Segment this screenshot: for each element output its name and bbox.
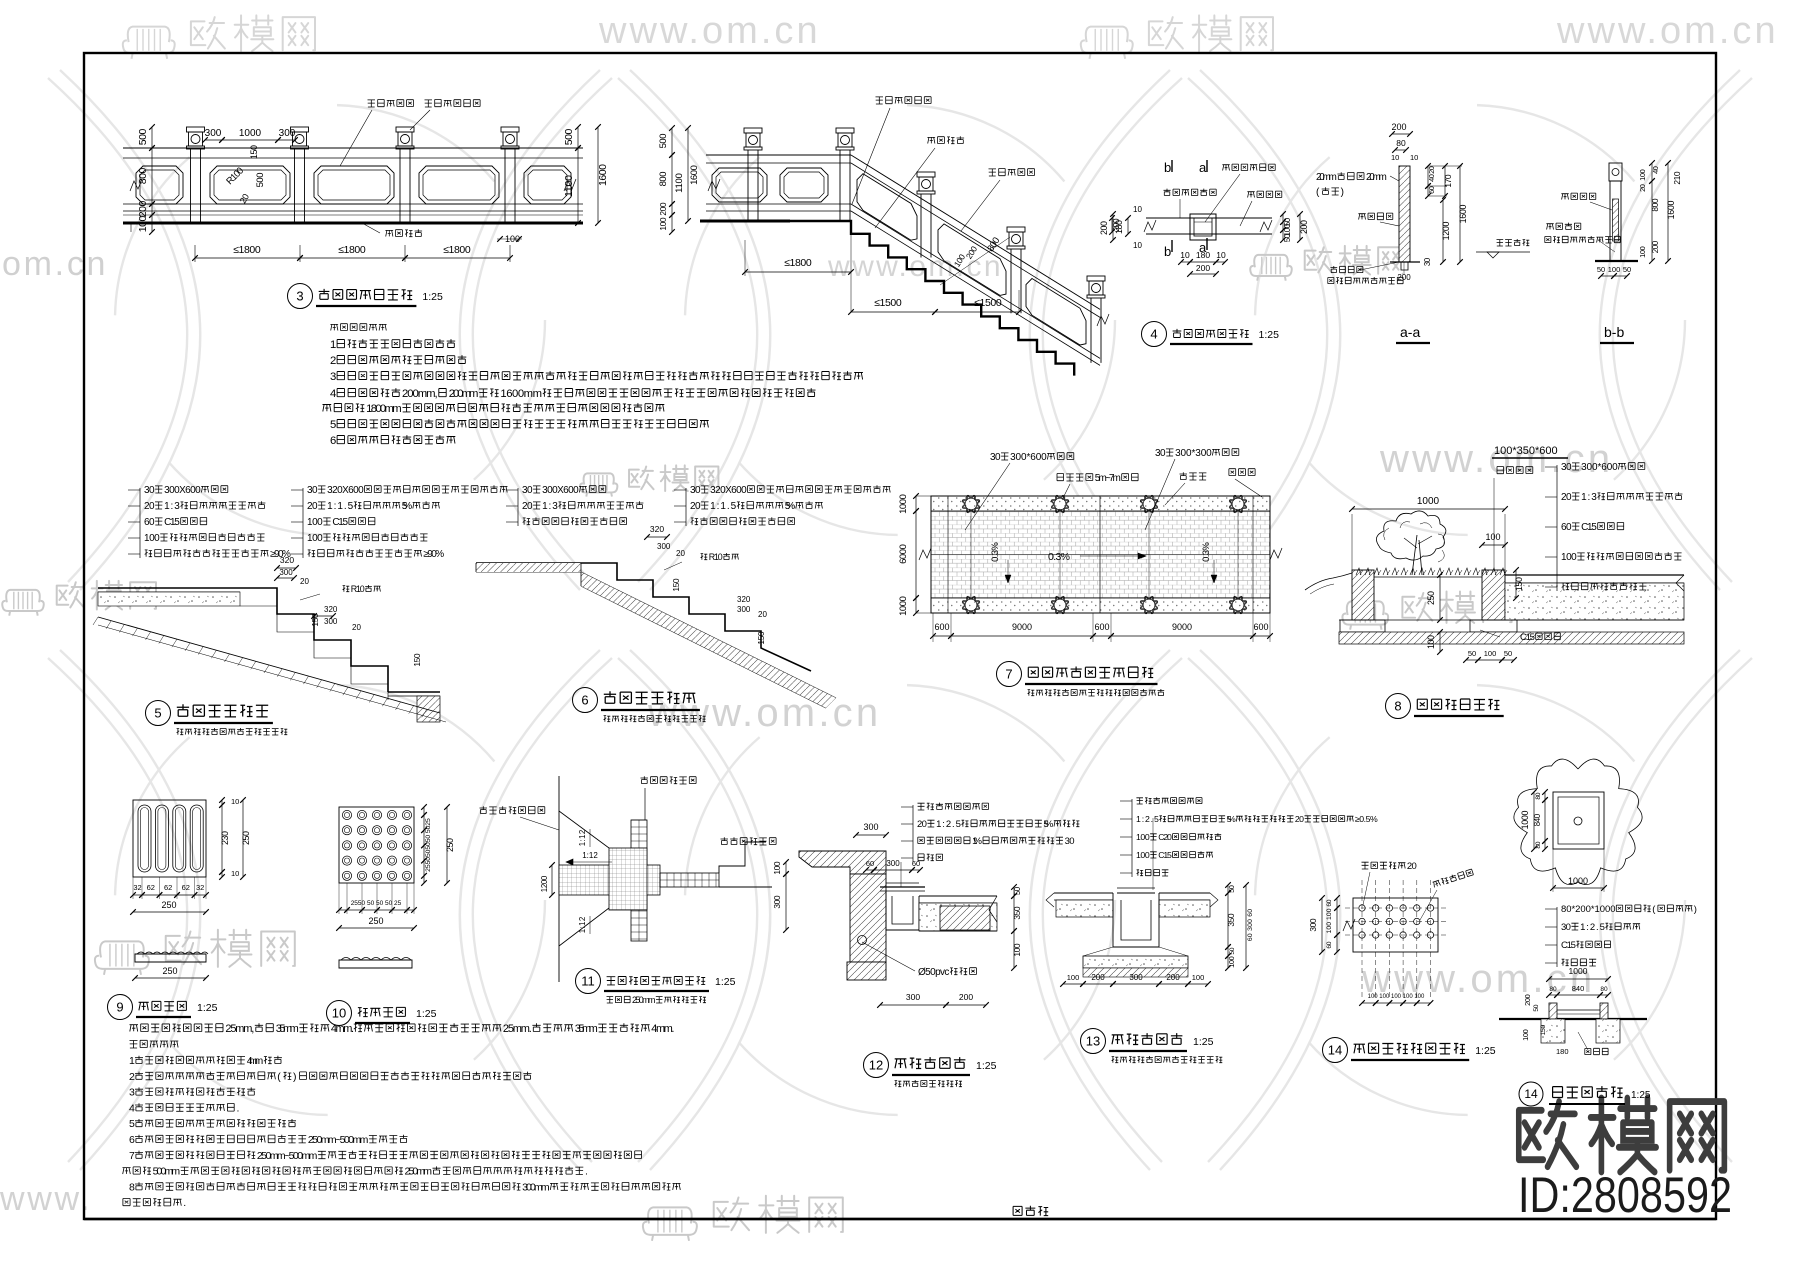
svg-text:500mm: 500mm	[153, 1166, 181, 1178]
svg-text:20: 20	[1295, 814, 1304, 824]
svg-text:100: 100	[1012, 943, 1022, 957]
svg-text:b: b	[1164, 160, 1171, 175]
svg-text:100: 100	[1067, 973, 1080, 982]
svg-text:62: 62	[147, 883, 155, 892]
svg-text:1:1.5: 1:1.5	[327, 501, 354, 512]
svg-text:1000: 1000	[239, 128, 262, 139]
svg-text:1:12: 1:12	[578, 917, 587, 934]
svg-text:100 100: 100 100	[1326, 908, 1333, 933]
svg-text:1:25: 1:25	[1475, 1045, 1496, 1057]
svg-text:100: 100	[1426, 635, 1436, 649]
svg-text:300: 300	[324, 617, 338, 626]
svg-text:10: 10	[1410, 153, 1418, 162]
svg-text:32: 32	[196, 883, 204, 892]
svg-text:320: 320	[737, 595, 751, 604]
svg-text:a-a: a-a	[1400, 324, 1420, 340]
svg-text:60: 60	[866, 859, 874, 868]
svg-text:300mm: 300mm	[522, 1181, 550, 1193]
svg-text:100: 100	[1608, 265, 1621, 274]
svg-text:14: 14	[1328, 1043, 1342, 1058]
svg-text:R10: R10	[351, 584, 365, 594]
svg-text:200: 200	[959, 992, 973, 1002]
svg-text:6: 6	[581, 693, 588, 708]
svg-text:60: 60	[144, 517, 155, 528]
svg-text:10: 10	[332, 1006, 346, 1021]
svg-text:1600: 1600	[1666, 201, 1676, 220]
svg-text:1:25: 1:25	[416, 1008, 437, 1020]
svg-text:200: 200	[1196, 263, 1210, 273]
svg-text:1: 1	[129, 1055, 135, 1067]
svg-text:170: 170	[1443, 174, 1453, 188]
svg-text:C15: C15	[1158, 850, 1172, 860]
svg-text:www.om.cn: www.om.cn	[827, 250, 1003, 283]
svg-text:250mm: 250mm	[632, 995, 655, 1005]
svg-text:100: 100	[1561, 552, 1577, 563]
svg-text:230: 230	[220, 831, 230, 845]
svg-text:100: 100	[1484, 649, 1497, 658]
svg-text:320: 320	[280, 555, 294, 565]
svg-text:5%: 5%	[402, 501, 413, 512]
svg-text:7: 7	[129, 1150, 135, 1162]
svg-text:100: 100	[307, 517, 323, 528]
svg-text:R10: R10	[709, 552, 723, 562]
svg-text:300: 300	[657, 542, 671, 551]
svg-text:150: 150	[249, 145, 259, 159]
svg-text:1:25: 1:25	[422, 291, 443, 303]
svg-text:300: 300	[886, 859, 900, 868]
svg-text:14: 14	[1524, 1087, 1538, 1101]
svg-text:1000: 1000	[1568, 876, 1588, 886]
svg-text:2: 2	[129, 1071, 135, 1083]
svg-text:32: 32	[133, 883, 141, 892]
svg-text:1:12: 1:12	[582, 851, 598, 860]
svg-text:≥90%: ≥90%	[423, 549, 444, 560]
svg-text:62: 62	[164, 883, 172, 892]
svg-text:1:25: 1:25	[976, 1060, 997, 1072]
svg-text:100: 100	[1638, 246, 1647, 258]
svg-text:500: 500	[255, 173, 266, 188]
svg-text:150: 150	[756, 631, 766, 645]
svg-text:60: 60	[1561, 522, 1572, 533]
svg-text:12: 12	[869, 1058, 883, 1073]
svg-text:35mm: 35mm	[575, 1023, 598, 1035]
svg-text:4mm: 4mm	[247, 1055, 264, 1067]
svg-text:500: 500	[137, 129, 149, 146]
svg-text:20: 20	[1561, 492, 1572, 503]
svg-text:100: 100	[1521, 1029, 1530, 1041]
svg-text:320X600: 320X600	[327, 485, 364, 496]
svg-text:50: 50	[1623, 265, 1631, 274]
svg-text:www.: www.	[0, 1180, 92, 1218]
svg-text:6: 6	[129, 1134, 135, 1146]
svg-text:10: 10	[1216, 250, 1226, 260]
svg-text:4mm.: 4mm.	[651, 1023, 674, 1035]
svg-text:b: b	[1164, 244, 1171, 259]
svg-text:20: 20	[307, 501, 318, 512]
svg-text:30: 30	[522, 485, 533, 496]
svg-text:150: 150	[1540, 1024, 1547, 1035]
svg-text:50: 50	[1283, 233, 1292, 242]
svg-text:1200: 1200	[1441, 222, 1451, 241]
svg-text:800: 800	[658, 172, 669, 187]
svg-text:100: 100	[1136, 850, 1150, 860]
svg-text:100: 100	[1485, 532, 1500, 542]
svg-text:35mm: 35mm	[276, 1023, 299, 1035]
svg-text:1:2.5: 1:2.5	[936, 819, 961, 830]
svg-text:800: 800	[137, 168, 149, 185]
svg-text:200: 200	[1391, 122, 1406, 132]
svg-text:6: 6	[330, 435, 336, 447]
svg-text:300: 300	[1129, 973, 1143, 982]
svg-text:300: 300	[737, 605, 751, 614]
svg-text:320: 320	[324, 605, 338, 614]
svg-text:20: 20	[690, 501, 701, 512]
svg-text:4: 4	[129, 1102, 135, 1114]
svg-text:5m~7m: 5m~7m	[1095, 473, 1121, 484]
svg-text:100: 100	[1227, 956, 1236, 968]
svg-text:≤1800: ≤1800	[233, 244, 261, 256]
svg-text:1:25: 1:25	[1193, 1036, 1214, 1048]
svg-text:www.om.cn: www.om.cn	[1556, 10, 1779, 52]
svg-text:1000: 1000	[898, 494, 909, 514]
svg-text:13: 13	[1086, 1034, 1100, 1049]
svg-text:≥0.5%: ≥0.5%	[1355, 814, 1378, 824]
svg-text:800: 800	[1650, 198, 1660, 212]
svg-text:30: 30	[1561, 922, 1571, 933]
svg-text:210: 210	[1672, 171, 1682, 185]
svg-text:4mm.: 4mm.	[331, 1023, 354, 1035]
svg-text:1:2.5: 1:2.5	[1580, 922, 1605, 933]
svg-text:25mm.: 25mm.	[503, 1023, 532, 1035]
svg-text:250: 250	[161, 900, 176, 910]
svg-text:180: 180	[1114, 220, 1124, 234]
svg-text:20: 20	[1407, 861, 1417, 872]
svg-text:60 300 60: 60 300 60	[1247, 909, 1254, 941]
svg-text:1:3: 1:3	[1581, 492, 1597, 503]
svg-text:≤1500: ≤1500	[974, 297, 1002, 309]
svg-text:50: 50	[1468, 649, 1476, 658]
svg-text:www.om.cn: www.om.cn	[598, 10, 821, 52]
svg-text:80: 80	[1535, 841, 1542, 848]
svg-text:200mm: 200mm	[449, 388, 479, 400]
svg-text:≤1500: ≤1500	[874, 297, 902, 309]
svg-text:62: 62	[182, 883, 190, 892]
svg-text:200: 200	[1166, 973, 1180, 982]
svg-text:250mm: 250mm	[405, 1166, 433, 1178]
svg-text:5: 5	[330, 419, 336, 431]
svg-text:ID:2808592: ID:2808592	[1518, 1167, 1732, 1223]
svg-text:1:12: 1:12	[578, 830, 587, 847]
svg-text:20: 20	[352, 623, 361, 632]
svg-text:4: 4	[330, 388, 336, 400]
svg-text:100: 100	[772, 861, 782, 875]
svg-text:1800mm: 1800mm	[366, 403, 402, 415]
svg-text:840: 840	[1533, 813, 1542, 826]
svg-text:50: 50	[1504, 649, 1512, 658]
svg-text:500: 500	[563, 129, 575, 146]
svg-text:1000: 1000	[1417, 496, 1440, 507]
svg-text:180: 180	[1556, 1047, 1569, 1056]
svg-text:10: 10	[231, 797, 239, 806]
svg-text:5: 5	[154, 706, 161, 721]
svg-text:1600: 1600	[597, 164, 609, 186]
svg-text:9000: 9000	[1012, 622, 1032, 632]
svg-text:3: 3	[296, 289, 303, 304]
svg-text:www.om.cn: www.om.cn	[1379, 437, 1613, 481]
svg-text:4: 4	[1150, 327, 1157, 342]
svg-text:≤1800: ≤1800	[784, 257, 812, 269]
svg-text:10: 10	[1391, 153, 1399, 162]
svg-text:C15: C15	[332, 517, 348, 528]
svg-text:20: 20	[1638, 184, 1647, 192]
svg-text:20: 20	[758, 610, 767, 619]
svg-text:1:2.5: 1:2.5	[1136, 814, 1159, 824]
svg-text:300*600: 300*600	[1010, 452, 1047, 463]
svg-text:1100: 1100	[563, 175, 575, 197]
svg-text:5%: 5%	[1043, 819, 1053, 830]
svg-text:0.3%: 0.3%	[1048, 551, 1070, 563]
svg-text:3: 3	[330, 371, 336, 383]
svg-text:.: .	[237, 1102, 240, 1114]
svg-text:1:25: 1:25	[715, 976, 736, 988]
svg-text:200: 200	[1651, 240, 1660, 253]
svg-text:30: 30	[144, 485, 155, 496]
svg-text:1:3: 1:3	[542, 501, 558, 512]
svg-text:100: 100	[658, 217, 668, 231]
svg-text:1000: 1000	[898, 596, 909, 616]
svg-text:b-b: b-b	[1604, 324, 1624, 340]
svg-text:6000: 6000	[898, 544, 909, 564]
svg-text:300: 300	[906, 992, 920, 1002]
svg-text:50: 50	[1229, 947, 1236, 954]
svg-text:350: 350	[1012, 906, 1022, 920]
svg-text:11: 11	[581, 974, 595, 989]
svg-text:600: 600	[1094, 622, 1109, 632]
svg-text:www.om.cn: www.om.cn	[647, 691, 881, 735]
svg-text:100 100 100 100 100: 100 100 100 100 100	[1368, 994, 1425, 1000]
svg-text:600: 600	[1253, 622, 1268, 632]
svg-text:20: 20	[144, 501, 155, 512]
svg-text:1%: 1%	[972, 836, 982, 847]
svg-text:3: 3	[129, 1087, 135, 1099]
svg-text:300: 300	[279, 568, 293, 577]
svg-text:60: 60	[912, 859, 920, 868]
svg-text:7: 7	[1005, 667, 1012, 682]
svg-text:0.3%: 0.3%	[990, 542, 1001, 562]
svg-text:250: 250	[162, 966, 177, 976]
svg-text:100: 100	[144, 533, 160, 544]
svg-text:40: 40	[1651, 166, 1660, 174]
svg-text:350: 350	[1226, 913, 1236, 927]
svg-text:200: 200	[1299, 220, 1309, 234]
svg-text:30: 30	[1155, 448, 1166, 459]
svg-text:200: 200	[1397, 273, 1411, 282]
svg-text:1:25: 1:25	[197, 1002, 218, 1014]
svg-text:10: 10	[1133, 241, 1142, 250]
svg-text:≤1800: ≤1800	[338, 244, 366, 256]
svg-text:300*300: 300*300	[1175, 448, 1212, 459]
svg-text:250: 250	[368, 916, 383, 926]
svg-text:a: a	[1199, 160, 1207, 175]
svg-text:20mm: 20mm	[1316, 172, 1337, 183]
svg-text:2550505050 5025: 2550505050 5025	[425, 818, 432, 872]
svg-text:20mm: 20mm	[1366, 172, 1387, 183]
svg-text:Ø50pvc: Ø50pvc	[918, 967, 949, 978]
svg-text:100: 100	[137, 216, 149, 233]
svg-text:80*200*1000: 80*200*1000	[1561, 904, 1616, 915]
svg-text:5: 5	[129, 1118, 135, 1130]
svg-text:1000: 1000	[1520, 811, 1530, 830]
svg-text:200: 200	[137, 201, 149, 218]
svg-text:1:25: 1:25	[1259, 329, 1280, 341]
svg-text:150: 150	[671, 578, 681, 592]
svg-text:60: 60	[1326, 941, 1333, 948]
svg-text:30: 30	[990, 452, 1001, 463]
svg-text:C15: C15	[164, 517, 180, 528]
svg-text:50: 50	[1227, 885, 1236, 893]
svg-text:2: 2	[330, 355, 336, 367]
svg-text:1:3: 1:3	[164, 501, 180, 512]
svg-text:(: (	[277, 1071, 281, 1083]
svg-text:1:25: 1:25	[1631, 1090, 1651, 1101]
svg-text:1600mm: 1600mm	[500, 388, 542, 400]
svg-text:C15: C15	[1581, 522, 1597, 533]
svg-text:80: 80	[1535, 792, 1542, 799]
svg-text:500: 500	[658, 134, 669, 149]
svg-text:): )	[1341, 187, 1344, 198]
svg-text:1600: 1600	[1458, 205, 1468, 224]
svg-text:150: 150	[412, 653, 422, 667]
svg-text:250: 250	[445, 838, 455, 852]
svg-text:50: 50	[1597, 265, 1605, 274]
svg-text:320: 320	[650, 524, 664, 534]
svg-text:100: 100	[1638, 169, 1647, 181]
svg-text:300*600: 300*600	[1581, 462, 1618, 473]
svg-text:60: 60	[1326, 899, 1333, 906]
svg-text:840: 840	[1572, 984, 1585, 993]
svg-text:200mm,: 200mm,	[402, 388, 438, 400]
svg-text:600: 600	[934, 622, 949, 632]
svg-text:200: 200	[658, 202, 668, 216]
svg-text:100: 100	[1136, 832, 1150, 842]
svg-text:): )	[1694, 904, 1697, 915]
svg-text:100: 100	[307, 533, 323, 544]
svg-text:9000: 9000	[1172, 622, 1192, 632]
svg-text:≤1800: ≤1800	[443, 244, 471, 256]
svg-text:9: 9	[116, 1000, 123, 1015]
svg-text:300: 300	[1308, 918, 1318, 932]
svg-text:10: 10	[1180, 250, 1190, 260]
svg-text:300: 300	[863, 822, 878, 832]
svg-text:1:1.5: 1:1.5	[710, 501, 737, 512]
svg-text:0.3%: 0.3%	[1201, 542, 1212, 562]
svg-text:250mm~500mm: 250mm~500mm	[308, 1134, 369, 1146]
svg-text:8: 8	[1394, 699, 1401, 714]
svg-text:30: 30	[1561, 462, 1572, 473]
svg-text:300X600: 300X600	[164, 485, 201, 496]
svg-text:.: .	[585, 1166, 588, 1178]
svg-text:100*350*600: 100*350*600	[1494, 445, 1558, 457]
svg-text:30: 30	[690, 485, 701, 496]
svg-text:300: 300	[205, 128, 222, 139]
svg-text:8: 8	[129, 1181, 135, 1193]
svg-text:20: 20	[522, 501, 533, 512]
svg-text:200: 200	[1091, 973, 1105, 982]
svg-text:150: 150	[1514, 577, 1524, 591]
svg-text:1600: 1600	[689, 165, 700, 185]
svg-text:20: 20	[676, 549, 685, 558]
svg-text:30: 30	[1423, 257, 1432, 266]
svg-text:20: 20	[300, 577, 309, 586]
svg-text:180: 180	[1196, 250, 1210, 260]
svg-text:300: 300	[772, 895, 782, 909]
svg-text:300X600: 300X600	[542, 485, 579, 496]
svg-text:50: 50	[1533, 1004, 1540, 1011]
svg-text:C20: C20	[1158, 832, 1172, 842]
svg-text:om.cn: om.cn	[2, 245, 108, 283]
svg-text:10: 10	[1133, 205, 1142, 214]
svg-text:100: 100	[1192, 973, 1205, 982]
svg-text:250: 250	[241, 831, 251, 845]
svg-text:5%: 5%	[1227, 814, 1236, 824]
svg-text:40: 40	[1427, 174, 1436, 182]
svg-text:1200: 1200	[540, 875, 549, 892]
svg-text:.: .	[183, 1197, 186, 1209]
svg-text:20: 20	[1427, 166, 1436, 174]
svg-text:2550 50 50 50 25: 2550 50 50 50 25	[351, 900, 402, 907]
svg-text:80: 80	[1600, 986, 1608, 993]
svg-text:30: 30	[307, 485, 318, 496]
svg-text:1000: 1000	[1569, 966, 1588, 976]
svg-text:80: 80	[1549, 986, 1557, 993]
svg-text:250mm~500mm: 250mm~500mm	[257, 1150, 318, 1162]
svg-text:5%: 5%	[785, 501, 796, 512]
svg-text:1100: 1100	[674, 173, 685, 193]
svg-text:50: 50	[1013, 886, 1022, 895]
svg-text:1: 1	[330, 339, 336, 351]
svg-text:60: 60	[1427, 186, 1436, 194]
svg-text:C15: C15	[1520, 632, 1535, 643]
svg-text:320X600: 320X600	[710, 485, 747, 496]
svg-text:300: 300	[279, 128, 296, 139]
svg-text:): )	[293, 1071, 297, 1083]
svg-text:C15: C15	[1561, 940, 1576, 951]
svg-text:200: 200	[1099, 221, 1109, 235]
svg-text:30: 30	[1065, 836, 1075, 847]
svg-text:250: 250	[1426, 591, 1436, 605]
svg-text:200: 200	[1523, 994, 1532, 1006]
svg-text:20: 20	[917, 819, 927, 830]
svg-text:80: 80	[1396, 138, 1406, 148]
svg-text:25mm,: 25mm,	[225, 1023, 254, 1035]
svg-text:10: 10	[231, 869, 239, 878]
